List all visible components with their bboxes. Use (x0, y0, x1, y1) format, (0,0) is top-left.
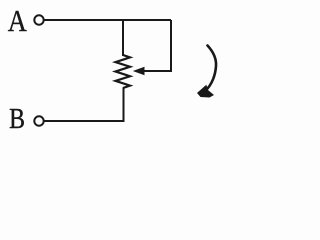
wire right branch down from top (170, 20, 172, 71)
rotation direction curved arrow (205, 46, 216, 92)
wire bottom horizontal (45, 120, 125, 122)
rotation arrowhead (197, 85, 214, 98)
terminal A (34, 15, 43, 24)
wire junction down to resistor top (122, 20, 124, 56)
wire resistor bottom lead (123, 88, 125, 122)
terminal B (34, 116, 43, 125)
svg-text:B: B (9, 103, 25, 134)
resistor element (potentiometer track) (116, 55, 131, 88)
wiper arrow wire (143, 70, 172, 72)
wiper arrowhead (133, 67, 145, 75)
wire top horizontal (45, 19, 172, 21)
svg-text:A: A (8, 4, 27, 38)
